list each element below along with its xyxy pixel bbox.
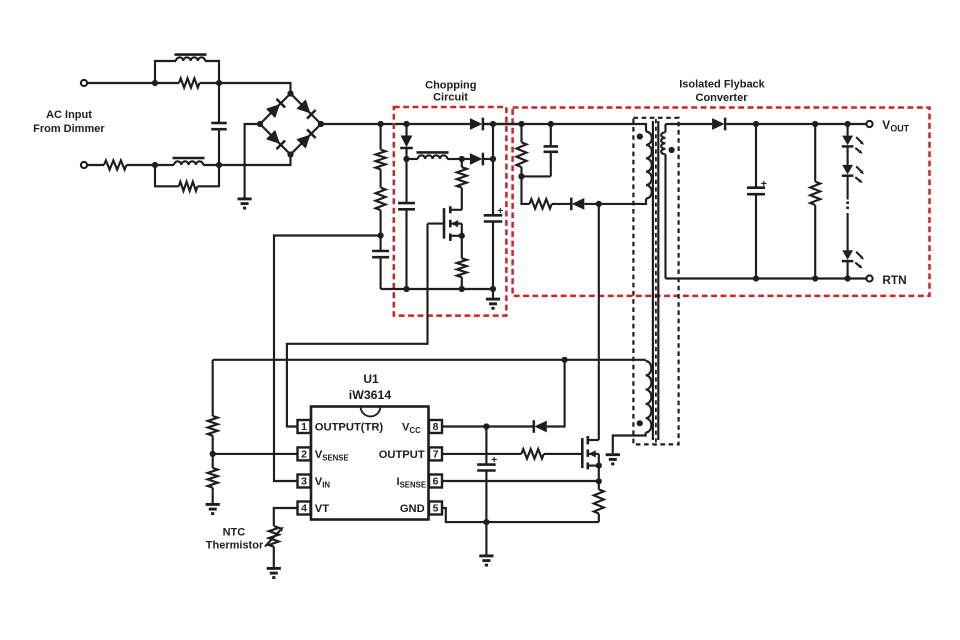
resistor R8 (VSENSE divider upper) bbox=[208, 416, 218, 436]
transistor Q2 (main MOSFET) gate bar bbox=[581, 438, 584, 468]
wire R2 to choke bottom bbox=[127, 164, 175, 166]
svg-text:AC Input: AC Input bbox=[46, 109, 92, 121]
capacitor C3 (chopper mid) bbox=[405, 159, 407, 203]
wire output bus bbox=[726, 123, 866, 125]
transformer T1 primary winding bbox=[646, 132, 652, 199]
ground bridge bbox=[238, 197, 252, 200]
wire VSENSE tap to U1 pin 2 bbox=[213, 453, 298, 455]
node bridge left bbox=[257, 121, 263, 127]
node storage cap top bbox=[490, 156, 496, 162]
wire RTN rail bbox=[666, 277, 867, 279]
diode BR1-D3 (left to bottom) bbox=[266, 130, 280, 144]
wire bus to transformer primary bbox=[484, 124, 646, 132]
wire U1 pin 4 to thermistor bbox=[274, 508, 298, 526]
transistor Q1 source stub bbox=[450, 235, 462, 237]
red dashed box Isolated Flyback Converter bbox=[513, 108, 930, 296]
pin 4 box bbox=[298, 502, 311, 515]
red dashed box Chopping Circuit bbox=[394, 107, 507, 316]
diode D8 (output rectifier) bbox=[712, 118, 724, 130]
LED string segment 3 bbox=[842, 250, 853, 260]
capacitor C2 (divider filter) bbox=[380, 236, 382, 252]
svg-text:Converter: Converter bbox=[696, 92, 749, 104]
node VSENSE tap bbox=[210, 451, 216, 457]
node bridge top bbox=[287, 90, 293, 96]
svg-text:4: 4 bbox=[301, 503, 307, 515]
svg-text:Thermistor: Thermistor bbox=[206, 539, 264, 551]
node choke left top bbox=[152, 80, 158, 86]
ground thermistor bbox=[267, 567, 281, 570]
node T1 secondary phase dot bbox=[669, 147, 675, 153]
node GND rail under C7 bbox=[483, 519, 489, 525]
node rail under C4 bbox=[490, 286, 496, 292]
node bridge bottom bbox=[287, 151, 293, 157]
inductor L1a (common-mode choke top winding) bbox=[176, 57, 205, 61]
terminal RTN bbox=[866, 275, 872, 281]
svg-text:NTC: NTC bbox=[223, 526, 246, 538]
wire LED string dotted continuation bbox=[847, 176, 849, 199]
diode BR1-D1 (left to top) bbox=[266, 104, 280, 118]
pin 1 box bbox=[298, 420, 311, 433]
node clamp resistor top bbox=[518, 121, 524, 127]
resistor R12 (snubber series) bbox=[522, 176, 530, 204]
wire thermistor to ground bbox=[273, 547, 275, 567]
wire Q2 source to ISENSE bbox=[598, 466, 600, 482]
svg-text:GND: GND bbox=[400, 503, 425, 515]
capacitor C5 (clamp) bbox=[550, 124, 552, 146]
wire choke bottom branch bbox=[155, 165, 219, 186]
node ISENSE junction bbox=[596, 478, 602, 484]
op-amp U1 iW3614 body bbox=[311, 407, 429, 520]
node Q2 source junction bbox=[596, 463, 602, 469]
transformer T1 secondary winding bbox=[664, 124, 666, 132]
wire bottom line to bridge bbox=[203, 155, 290, 166]
node chopper input bbox=[403, 121, 409, 127]
wire top line to bridge bbox=[200, 83, 291, 94]
node rail under C3 bbox=[403, 286, 409, 292]
wire neutral to R2 bbox=[87, 164, 104, 166]
node VIN sense tap bbox=[378, 232, 384, 238]
transformer T1 core line right bbox=[657, 121, 659, 440]
transistor Q2 channel segments bbox=[586, 436, 589, 444]
node T1 primary phase dot bbox=[637, 133, 643, 139]
transistor Q1 body arrow bbox=[450, 223, 462, 225]
transformer T1 auxiliary winding bbox=[645, 360, 647, 361]
inductor L2 (chopper) bbox=[407, 158, 418, 160]
diode D9 (VCC charge) bbox=[534, 421, 546, 433]
node T1 auxiliary phase dot bbox=[637, 420, 643, 426]
diode D1 (chopper bypass, downward) bbox=[405, 124, 407, 136]
transistor Q1 drain stub bbox=[450, 209, 462, 211]
node chopper mid left bbox=[403, 156, 409, 162]
transformer T1 dashed boundary bbox=[633, 118, 678, 445]
node clamp cap top bbox=[548, 121, 554, 127]
node RTN under C6 bbox=[753, 275, 759, 281]
svg-text:Isolated Flyback: Isolated Flyback bbox=[679, 79, 765, 91]
wire auxiliary sense line bbox=[213, 359, 646, 361]
svg-text:OUTPUT: OUTPUT bbox=[379, 449, 425, 461]
core bar L1a bbox=[175, 53, 207, 56]
resistor R9 (VSENSE divider lower) bbox=[212, 454, 214, 468]
svg-text:Chopping: Chopping bbox=[425, 80, 476, 92]
wire VIN tap to U1 pin 3 bbox=[274, 236, 381, 482]
transistor Q2 body arrow bbox=[588, 453, 599, 455]
node choke right bottom bbox=[216, 162, 222, 168]
svg-text:7: 7 bbox=[433, 449, 439, 461]
wire bridge negative to ground bbox=[245, 124, 260, 198]
node choke left bottom bbox=[152, 162, 158, 168]
svg-text:From Dimmer: From Dimmer bbox=[33, 123, 105, 135]
svg-text:3: 3 bbox=[301, 476, 307, 488]
capacitor C7 (VCC, polarized) bbox=[485, 427, 487, 465]
transistor Q2 source stub bbox=[588, 465, 599, 467]
wire secondary to output diode bbox=[666, 123, 713, 125]
node clamp junction bbox=[518, 173, 524, 179]
wire Q2 drain riser bbox=[598, 204, 600, 440]
wire bus vertical to storage cap bbox=[492, 124, 494, 215]
wire U1 pin 6 ISENSE bbox=[442, 480, 599, 482]
wire choke top branch bbox=[155, 61, 219, 83]
svg-text:+: + bbox=[761, 178, 767, 190]
node RTN under LEDs bbox=[845, 275, 851, 281]
svg-text:VOUT: VOUT bbox=[882, 118, 909, 134]
transistor Q2 drain stub bbox=[588, 439, 599, 441]
resistor R2 (series input) bbox=[104, 160, 127, 169]
ground auxiliary bbox=[606, 453, 620, 456]
LED string segment 2 bbox=[847, 147, 849, 165]
node bridge right bbox=[318, 121, 324, 127]
transistor Q1 channel segments bbox=[449, 206, 452, 213]
bridge rectifier BR1 diamond bbox=[260, 94, 321, 155]
svg-text:VSENSE: VSENSE bbox=[315, 449, 349, 463]
transistor Q1 gate lead bbox=[428, 223, 445, 225]
capacitor C1 (X-cap across line) bbox=[218, 83, 220, 123]
wire clamp bottom join bbox=[522, 175, 551, 177]
svg-text:U1: U1 bbox=[363, 372, 379, 386]
core bar L1b bbox=[173, 157, 205, 160]
svg-text:iW3614: iW3614 bbox=[349, 388, 392, 402]
transistor Q1 (chopper MOSFET) gate bar bbox=[443, 208, 446, 239]
node LED string top bbox=[845, 121, 851, 127]
node choke right top bbox=[216, 80, 222, 86]
resistor R7 (preload) bbox=[814, 124, 816, 182]
resistor R1a (parallel with L1a) bbox=[179, 78, 200, 87]
svg-text:8: 8 bbox=[433, 421, 439, 433]
svg-text:VCC: VCC bbox=[402, 422, 421, 436]
terminal VOUT bbox=[866, 121, 872, 127]
node output cap top bbox=[753, 121, 759, 127]
svg-text:ISENSE: ISENSE bbox=[397, 476, 427, 490]
inductor L1b (common-mode choke bottom winding) bbox=[174, 161, 203, 165]
node Q1 source junction bbox=[459, 233, 465, 239]
wire bridge output bbox=[321, 123, 470, 125]
pin 2 box bbox=[298, 447, 311, 460]
resistor R5 (Q1 source) bbox=[461, 236, 463, 258]
diode D7 (clamp blocking) bbox=[552, 203, 572, 205]
wire auxiliary return bbox=[613, 433, 646, 454]
diode BR1-D4 (bottom to right) bbox=[296, 135, 310, 149]
transformer T1 core center dashed bbox=[655, 119, 657, 446]
resistor R11 (current sense) bbox=[598, 481, 600, 489]
wire U1 pin 7 OUTPUT to gate resistor bbox=[442, 453, 521, 455]
resistor R10 (gate) bbox=[521, 449, 543, 459]
resistor R4 (chopper damping) bbox=[461, 159, 463, 167]
svg-text:RTN: RTN bbox=[882, 273, 906, 287]
node bus after D2 bbox=[490, 121, 496, 127]
node VCC cap top bbox=[483, 423, 489, 429]
svg-text:VIN: VIN bbox=[315, 476, 331, 490]
node chopper mid right bbox=[459, 156, 465, 162]
node VCC diode riser bbox=[562, 357, 568, 363]
resistor R1b (parallel with L1b) bbox=[179, 182, 198, 191]
pin 7 box bbox=[429, 447, 442, 460]
pin 5 box bbox=[429, 502, 442, 515]
terminal AC line input bbox=[81, 80, 87, 86]
resistor R3a (bus divider upper) bbox=[380, 124, 382, 150]
pin 8 box bbox=[429, 420, 442, 433]
wire gate resistor to Q2 gate bbox=[544, 453, 583, 455]
node rail under R5 bbox=[459, 286, 465, 292]
wire U1 pin 5 GND rail bbox=[442, 508, 599, 522]
capacitor C6 (output, polarized) bbox=[755, 124, 757, 188]
svg-text:+: + bbox=[491, 454, 497, 466]
wire AC line to choke bbox=[87, 82, 179, 84]
wire U1 pin 8 VCC bbox=[442, 425, 534, 427]
node RTN under R7 bbox=[812, 275, 818, 281]
diode D2 (bus series) bbox=[470, 118, 482, 130]
svg-text:1: 1 bbox=[301, 421, 307, 433]
terminal AC neutral input bbox=[81, 162, 87, 168]
capacitor C4 (storage, polarized) bbox=[484, 214, 503, 217]
diode D3 (chopper series) bbox=[462, 158, 470, 160]
ground VCC cap bbox=[485, 522, 487, 554]
ground chopper rail bbox=[492, 289, 494, 298]
resistor R3b (bus divider lower) bbox=[380, 169, 382, 187]
ground VSENSE divider bbox=[206, 503, 220, 506]
svg-text:Circuit: Circuit bbox=[433, 92, 468, 104]
svg-text:2: 2 bbox=[301, 449, 307, 461]
transformer T1 core line left bbox=[652, 121, 654, 440]
LED string segment 1 bbox=[847, 124, 849, 136]
wire chopper bottom rail bbox=[381, 288, 493, 290]
svg-text:OUTPUT(TR): OUTPUT(TR) bbox=[315, 422, 384, 434]
diode BR1-D2 (top to right) bbox=[296, 99, 310, 113]
svg-text:6: 6 bbox=[433, 476, 439, 488]
node output resistor top bbox=[812, 121, 818, 127]
svg-text:VT: VT bbox=[315, 503, 329, 515]
node primary return / drain bbox=[596, 201, 602, 207]
node rectified bus at divider bbox=[378, 121, 384, 127]
resistor R6 (clamp) bbox=[520, 124, 522, 142]
wire divider top bbox=[212, 360, 214, 416]
pin 6 box bbox=[429, 475, 442, 488]
pin 3 box bbox=[298, 475, 311, 488]
svg-text:5: 5 bbox=[433, 503, 439, 515]
thermistor RT1 (NTC) bbox=[269, 526, 279, 547]
wire Q1 gate to U1 pin 1 OUTPUT(TR) bbox=[287, 224, 428, 427]
svg-text:+: + bbox=[497, 205, 503, 217]
